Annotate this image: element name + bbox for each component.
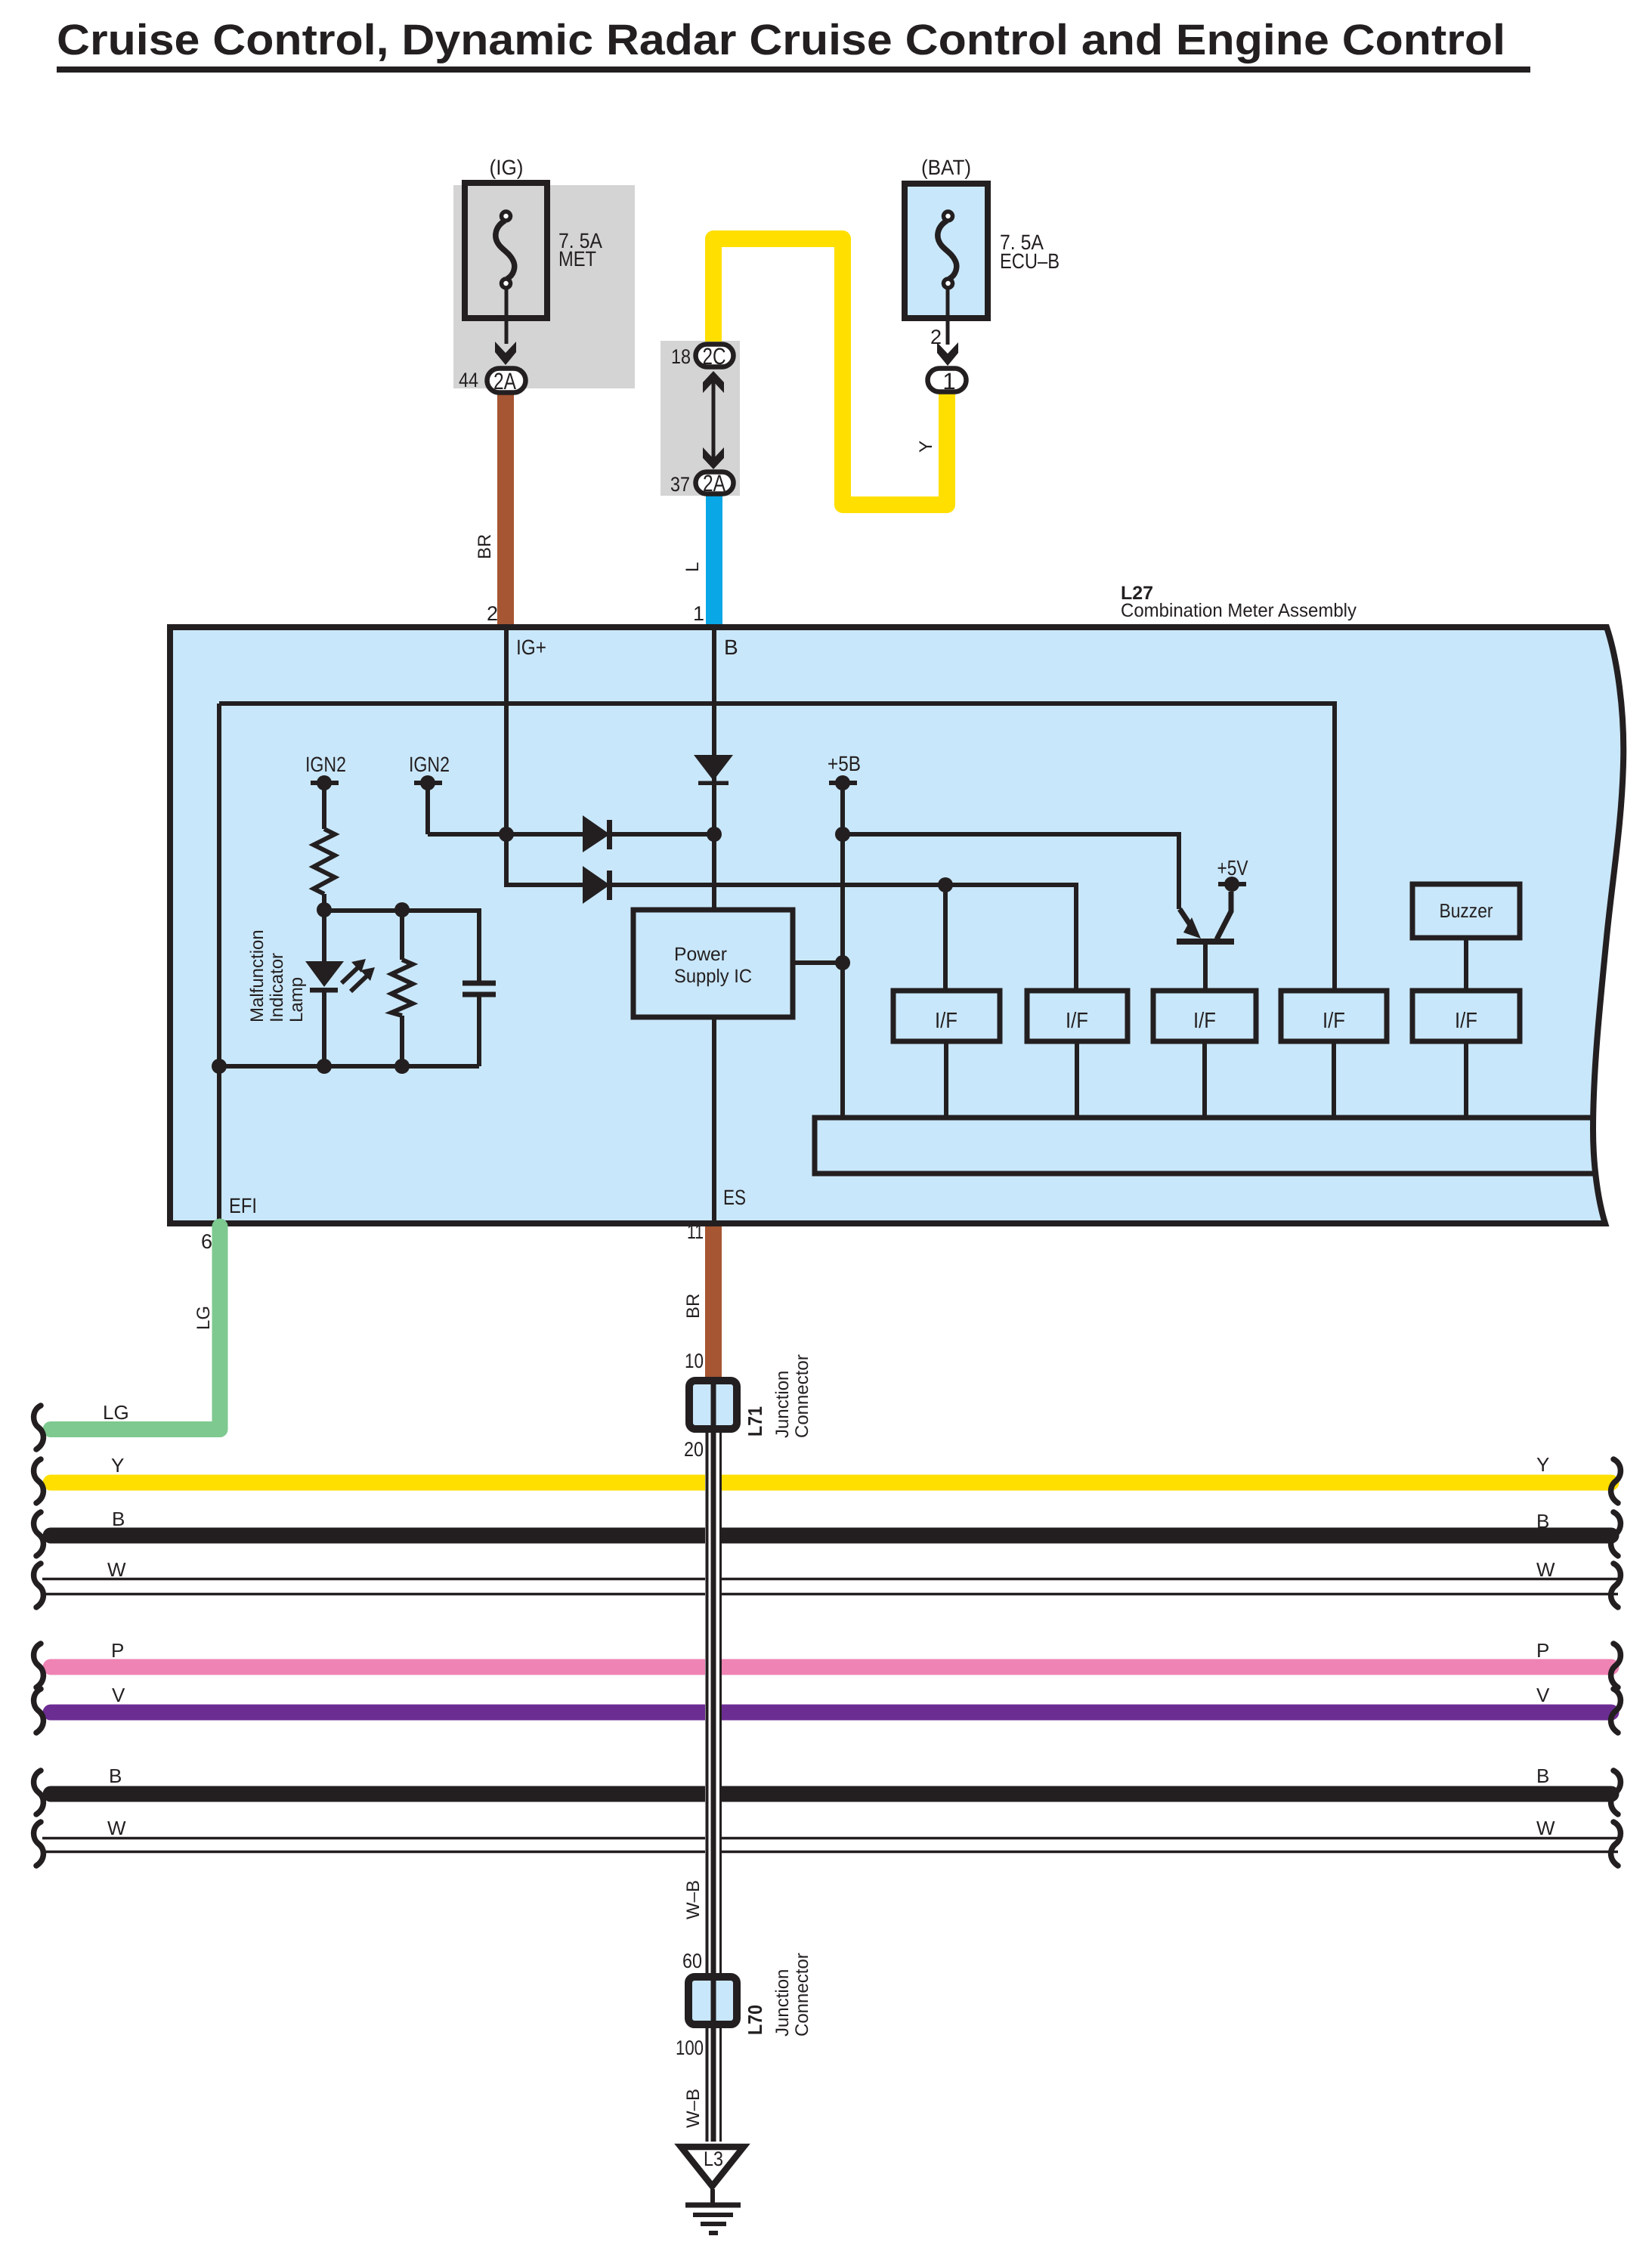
svg-text:W: W <box>1536 1558 1555 1581</box>
wire IGN2 #2 drop <box>425 783 430 834</box>
junction dots <box>212 827 953 1074</box>
svg-text:Cruise Control, Dynamic Radar: Cruise Control, Dynamic Radar Cruise Con… <box>57 16 1505 64</box>
wire row2 diode2 to I/F2 <box>585 885 1076 991</box>
squiggle B2 left <box>34 1771 44 1814</box>
pin +5V <box>1217 856 1248 892</box>
diode D1 row1 <box>583 815 612 852</box>
svg-text:V: V <box>1536 1684 1550 1706</box>
svg-text:V: V <box>112 1684 125 1706</box>
wire ES pin vertical <box>712 1017 716 1222</box>
svg-text:EFI: EFI <box>229 1194 257 1217</box>
wire resistor R2 branch <box>400 910 404 1066</box>
wire left vertical x=290 <box>217 704 221 1066</box>
svg-text:44: 44 <box>459 369 478 391</box>
svg-text:I/F: I/F <box>1193 1009 1216 1033</box>
svg-text:BR: BR <box>475 534 495 559</box>
svg-text:20: 20 <box>684 1438 704 1461</box>
squiggle B1 left <box>34 1512 44 1556</box>
fuse 7.5A ECU-B <box>905 156 1060 318</box>
svg-text:L: L <box>682 562 703 572</box>
wire BR from fuse MET to meter pin 2 <box>497 387 514 627</box>
svg-text:Power: Power <box>674 944 727 965</box>
svg-text:2A: 2A <box>493 368 516 394</box>
svg-text:MET: MET <box>558 247 596 271</box>
svg-text:2A: 2A <box>703 470 725 496</box>
wire B vertical <box>712 626 716 910</box>
svg-text:W: W <box>107 1558 126 1581</box>
svg-text:W: W <box>1536 1817 1555 1839</box>
svg-text:L70: L70 <box>744 2005 766 2035</box>
connector 2C oval (pin 18) <box>671 343 734 370</box>
svg-text:I/F: I/F <box>1066 1009 1088 1033</box>
svg-text:L71: L71 <box>744 1406 766 1437</box>
svg-text:2: 2 <box>487 602 498 625</box>
wire LED vertical <box>322 910 326 1066</box>
svg-text:IGN2: IGN2 <box>409 753 450 776</box>
svg-text:Y: Y <box>111 1454 124 1477</box>
LED malfunction indicator lamp <box>305 961 344 993</box>
svg-text:I/F: I/F <box>1455 1009 1477 1033</box>
svg-text:100: 100 <box>676 2037 704 2059</box>
I/F box 5 <box>1412 991 1520 1041</box>
svg-text:Connector: Connector <box>792 1953 812 2037</box>
svg-text:6: 6 <box>201 1230 212 1253</box>
svg-text:W: W <box>107 1817 126 1839</box>
wire Power IC right lead <box>793 960 843 965</box>
svg-text:Lamp: Lamp <box>286 977 307 1022</box>
svg-text:1: 1 <box>942 368 955 394</box>
wire IG+ vertical into row2 <box>506 626 585 885</box>
double arrow between 2C and 2A <box>703 371 724 469</box>
squiggle W2 left <box>34 1822 44 1866</box>
pin +5B <box>828 752 861 790</box>
wire lamp bottom rail <box>219 1064 479 1069</box>
diode D2 row2 <box>583 866 612 904</box>
squiggle B1 right <box>1611 1512 1621 1556</box>
svg-text:(BAT): (BAT) <box>921 156 971 179</box>
svg-text:P: P <box>1536 1639 1549 1662</box>
svg-text:LG: LG <box>193 1306 214 1330</box>
svg-text:W–B: W–B <box>683 1880 704 1919</box>
wire transistor to I/F3 <box>1203 943 1208 991</box>
wire row Y <box>51 1475 1611 1491</box>
svg-text:18: 18 <box>671 345 691 368</box>
squiggle Y left <box>34 1459 44 1503</box>
squiggle P left <box>34 1644 44 1687</box>
wire +5B vertical <box>840 786 845 1118</box>
svg-text:Malfunction: Malfunction <box>247 929 268 1022</box>
diode D3 on B line <box>694 755 733 785</box>
pin IGN2 #2 <box>409 753 450 790</box>
Buzzer box <box>1412 884 1520 938</box>
svg-text:Y: Y <box>1536 1453 1549 1476</box>
wire L (blue) from connector 2A to meter pin 1 <box>706 493 722 627</box>
gray panel connector 2C/2A column <box>660 341 740 496</box>
wire I/F1 branch <box>943 885 948 991</box>
svg-text:W–B: W–B <box>683 2089 704 2128</box>
wire row B1 <box>51 1528 1611 1544</box>
wire +5V drop <box>1217 892 1231 939</box>
svg-text:Y: Y <box>916 441 936 453</box>
wire I/F3 to bus <box>1202 1041 1207 1118</box>
label Malfunction Indicator Lamp <box>247 929 307 1022</box>
wire capacitor bottom <box>477 994 481 1066</box>
fuse 7.5A MET <box>465 156 602 318</box>
svg-text:B: B <box>724 636 738 659</box>
svg-text:B: B <box>1536 1510 1549 1532</box>
svg-text:IGN2: IGN2 <box>305 753 346 776</box>
svg-text:B: B <box>109 1764 122 1787</box>
svg-text:Indicator: Indicator <box>267 953 287 1022</box>
svg-text:BR: BR <box>683 1294 704 1319</box>
connector pin 44 (2A oval) <box>459 368 526 394</box>
title <box>57 16 1530 73</box>
wire I/F4 to bus <box>1332 1041 1336 1118</box>
wire row W2 (white) <box>42 1837 1618 1840</box>
capacitor C1 plates <box>462 983 496 994</box>
svg-text:11: 11 <box>687 1220 704 1243</box>
wire I/F2 to bus <box>1075 1041 1079 1118</box>
I/F box 4 <box>1281 991 1387 1041</box>
gray panel behind fuse MET <box>453 185 635 388</box>
squiggle LG left <box>34 1406 44 1449</box>
connector 2A oval (pin 37) <box>670 470 734 496</box>
resistor R1 zigzag <box>314 829 335 894</box>
pin IGN2 #1 <box>305 753 346 790</box>
wire resistor R1 branch <box>322 786 326 910</box>
wire BR from ES to L71 <box>705 1226 722 1377</box>
svg-text:I/F: I/F <box>1323 1009 1345 1033</box>
svg-text:IG+: IG+ <box>516 636 546 659</box>
svg-text:10: 10 <box>685 1350 704 1372</box>
wire W-B from L71 to L70 (over rows) <box>705 1433 722 1973</box>
resistor R2 zigzag <box>391 960 413 1016</box>
wire row V <box>51 1705 1611 1721</box>
wire buzzer to I/F5 <box>1464 938 1468 991</box>
junction connector L71 <box>689 1378 737 1431</box>
wire row B2 <box>51 1786 1611 1802</box>
wire LG from EFI down and left <box>51 1226 220 1430</box>
svg-text:Combination Meter Assembly: Combination Meter Assembly <box>1121 600 1357 621</box>
squiggle P right <box>1611 1644 1621 1687</box>
bus bar <box>815 1118 1593 1174</box>
I/F box 1 <box>893 991 1000 1041</box>
wire row1 IGN2 to B <box>428 832 714 837</box>
squiggle V left <box>34 1689 44 1733</box>
svg-text:2C: 2C <box>703 343 726 370</box>
svg-text:2: 2 <box>930 326 942 348</box>
wire from fuse ECU-B to pin 1 oval with arrow <box>930 289 958 366</box>
I/F box 2 <box>1027 991 1128 1041</box>
svg-text:(IG): (IG) <box>490 156 524 179</box>
svg-text:B: B <box>1536 1764 1549 1787</box>
wire transistor left diagonal <box>1180 909 1192 927</box>
L27 Combination Meter Assembly block <box>170 627 1623 1223</box>
ground L3 triangle <box>681 2147 744 2186</box>
transistor Q1 emitter arrowhead <box>1183 917 1201 939</box>
squiggle B2 right <box>1611 1771 1621 1814</box>
wire I/F5 to bus <box>1464 1041 1468 1118</box>
squiggle W1 right <box>1611 1563 1621 1607</box>
svg-text:Supply IC: Supply IC <box>674 966 752 987</box>
transistor Q1 base bar <box>1177 939 1234 945</box>
ground symbol <box>685 2189 741 2233</box>
wire Y (yellow) from connector 2C to ECU-B fuse pin 1 <box>713 239 947 505</box>
svg-text:ES: ES <box>723 1186 746 1209</box>
wire EFI pin vertical <box>217 1066 221 1222</box>
svg-text:B: B <box>112 1508 125 1530</box>
squiggle Y right <box>1611 1459 1621 1503</box>
svg-text:Buzzer: Buzzer <box>1440 899 1493 922</box>
wire top rail y=931 from left branch to I/F4 <box>219 704 1335 991</box>
svg-text:Junction: Junction <box>772 1969 793 2037</box>
LED light arrows <box>342 967 367 991</box>
wire I/F1 to bus <box>944 1041 948 1118</box>
svg-text:L3: L3 <box>704 2148 723 2170</box>
svg-text:+5B: +5B <box>828 752 861 775</box>
svg-text:I/F: I/F <box>935 1009 957 1033</box>
wire +5B to transistor <box>843 834 1179 909</box>
junction connector L70 <box>688 1975 737 2027</box>
wire lamp top rail to capacitor <box>324 911 479 981</box>
squiggle V right <box>1611 1689 1621 1733</box>
svg-text:1: 1 <box>693 602 704 625</box>
wire row W1 (white) <box>42 1578 1618 1581</box>
svg-text:37: 37 <box>670 473 690 496</box>
Power Supply IC box <box>633 910 793 1017</box>
squiggle W2 right <box>1611 1822 1621 1866</box>
svg-text:P: P <box>111 1639 124 1662</box>
wire from fuse MET to connector 2A(44) with arrow <box>495 289 516 365</box>
connector pin 1 oval <box>928 368 967 394</box>
wire row P <box>51 1659 1611 1675</box>
svg-text:ECU–B: ECU–B <box>1000 249 1060 273</box>
svg-text:+5V: +5V <box>1217 856 1248 880</box>
svg-text:LG: LG <box>103 1401 129 1424</box>
svg-text:Connector: Connector <box>792 1354 812 1438</box>
svg-text:60: 60 <box>682 1950 702 1972</box>
I/F box 3 <box>1153 991 1256 1041</box>
wire W-B from L70 to ground <box>705 2028 722 2142</box>
svg-text:Junction: Junction <box>772 1371 793 1438</box>
squiggle W1 left <box>34 1563 44 1607</box>
